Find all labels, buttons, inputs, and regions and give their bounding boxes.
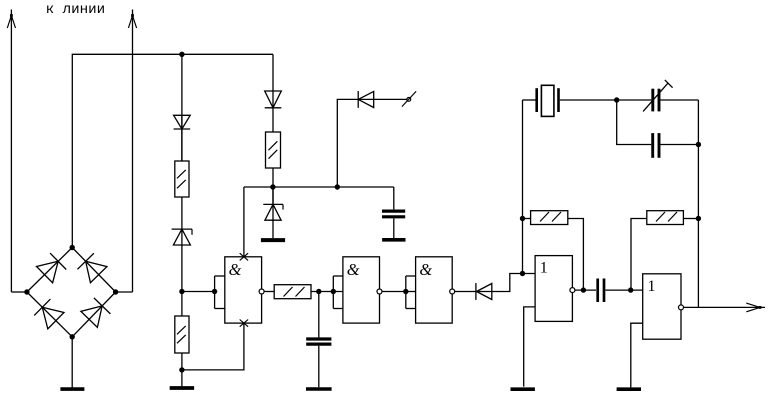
svg-text:&: & xyxy=(419,260,432,279)
svg-text:&: & xyxy=(229,260,242,279)
svg-text:1: 1 xyxy=(540,259,548,276)
svg-text:&: & xyxy=(347,260,360,279)
svg-text:1: 1 xyxy=(648,278,656,295)
svg-text:к линии: к линии xyxy=(46,2,106,18)
